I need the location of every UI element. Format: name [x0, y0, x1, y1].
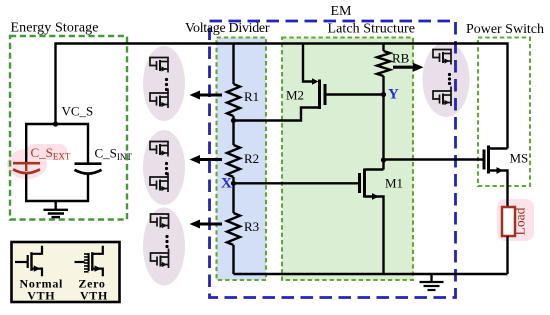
arrow to chain 3	[199, 222, 222, 225]
svg-text:EM: EM	[331, 4, 353, 19]
wire: capacitor bottom bus	[26, 174, 88, 201]
resistor R2	[227, 145, 240, 177]
arrow RB to chain	[393, 66, 414, 69]
node X	[231, 181, 236, 186]
chain 2 transistor b (diode-connected)	[150, 173, 168, 193]
svg-text:VC_S: VC_S	[62, 104, 94, 119]
svg-text:Latch Structure: Latch Structure	[328, 22, 416, 37]
svg-text:R2: R2	[244, 151, 259, 166]
Energy Storage dashed box	[10, 36, 127, 220]
svg-text:RB: RB	[392, 51, 410, 66]
node below R1	[231, 118, 236, 123]
svg-text:Voltage Divider: Voltage Divider	[185, 21, 270, 36]
pink glow behind Load	[497, 199, 534, 241]
transistor-chain ellipse 1 (left top)	[143, 46, 185, 121]
chain 1 transistor a (diode-connected)	[150, 58, 168, 73]
resistor R3	[227, 213, 240, 245]
transistor M2 (PMOS)	[303, 44, 316, 82]
svg-text:VTH: VTH	[80, 288, 108, 302]
pink glow behind C_S_EXT	[7, 144, 67, 179]
Power Switch dashed border	[478, 38, 530, 187]
capacitor C_S_EXT lead between plates	[25, 163, 27, 171]
node Y	[381, 92, 386, 97]
legend normal-VTH transistor	[15, 246, 42, 276]
chain 3 transistor b (diode-connected)	[151, 249, 169, 269]
svg-text:VTH: VTH	[27, 288, 55, 302]
chain 1 transistor b (diode-connected)	[150, 89, 168, 109]
wire: M2 gate to Y	[325, 93, 384, 95]
capacitor C_S_EXT	[13, 163, 40, 173]
wire: VDD top rail	[56, 44, 508, 149]
Voltage Divider box fill	[217, 38, 267, 281]
svg-text:M1: M1	[385, 176, 403, 191]
svg-text:Y: Y	[388, 87, 399, 103]
Latch Structure box fill	[282, 38, 413, 281]
chain 3 ellipsis dots	[165, 235, 168, 248]
capacitor C_S_INT	[75, 164, 102, 174]
svg-text:X: X	[221, 176, 232, 192]
chain 2 ellipsis dots	[165, 162, 168, 175]
wire: divider vertical	[232, 44, 234, 85]
resistor R1	[227, 84, 240, 116]
arrow to chain 2	[199, 158, 222, 161]
node M1 drain / MS gate	[381, 157, 386, 162]
transistor-chain ellipse 2 (left middle)	[143, 130, 185, 205]
wire: M1 drain to MS gate	[384, 158, 485, 160]
svg-text:R3: R3	[244, 219, 259, 234]
Latch Structure dashed border	[282, 38, 413, 281]
RB chain transistor b (diode-connected)	[433, 87, 451, 107]
svg-text:Energy Storage: Energy Storage	[11, 20, 99, 35]
EM dashed box	[210, 21, 456, 298]
ground (energy storage)	[55, 201, 57, 210]
svg-text:MS: MS	[510, 151, 529, 166]
svg-text:R1: R1	[244, 89, 259, 104]
chain 1 ellipsis dots	[165, 78, 168, 91]
chain 2 transistor a (diode-connected)	[150, 142, 168, 157]
legend zero-VTH transistor	[75, 246, 103, 276]
transistor-chain ellipse 3 (left bottom)	[143, 208, 185, 286]
RB chain ellipsis dots	[448, 73, 451, 85]
transistor-chain ellipse RB (top right)	[423, 42, 470, 117]
wire: bottom rail	[234, 273, 508, 275]
arrow to chain 1	[199, 93, 222, 96]
resistor RB	[382, 44, 384, 52]
resistor Load	[502, 207, 515, 236]
RB chain transistor a (diode-connected)	[433, 50, 451, 65]
node VC_S	[53, 121, 58, 126]
transistor M1 (NMOS)	[234, 182, 359, 184]
svg-text:Load: Load	[513, 207, 528, 235]
ground (EM)	[430, 274, 432, 282]
svg-text:Power Switch: Power Switch	[466, 22, 544, 37]
wire: capacitor top bus	[26, 124, 88, 163]
svg-text:M2: M2	[286, 88, 304, 103]
transistor MS (NMOS)	[483, 150, 486, 170]
Voltage Divider dashed border	[217, 38, 267, 281]
chain 3 transistor a (diode-connected)	[151, 214, 169, 229]
legend box (Normal/Zero VTH)	[12, 242, 120, 302]
